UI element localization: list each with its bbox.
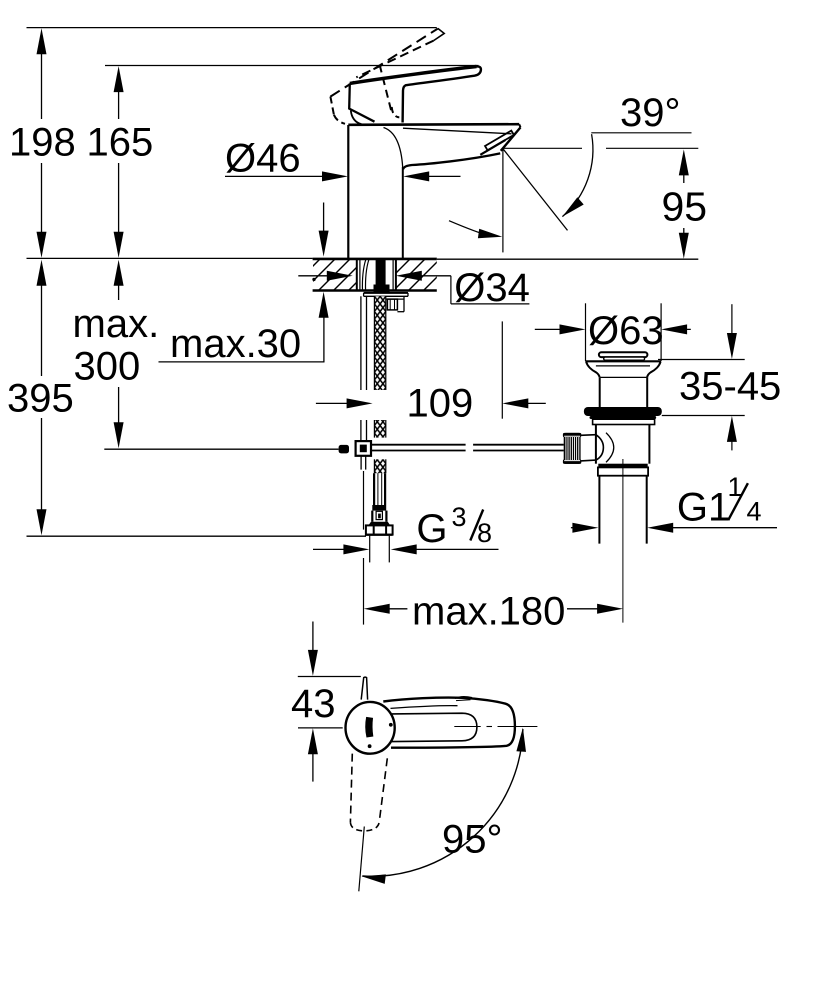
drain flange top line [585,360,661,362]
G3/8 dimension line [313,548,357,550]
165 reference line (spout height) [105,65,479,67]
G3/8 nut [368,522,390,526]
43 upper reference line [298,676,361,678]
counter line thick top [313,258,437,261]
hose ferrule [372,505,386,511]
svg-text:95°: 95° [442,818,503,862]
counter line left [27,257,313,259]
dimension Ø34 arrows [298,275,340,277]
pop-up pull rod lower [360,420,362,441]
svg-text:39°: 39° [620,91,681,135]
95-degree arc [362,729,523,876]
dimension 198 vertical line [41,34,43,119]
plan lever inner outline [392,713,477,741]
spout tip face [501,127,521,150]
spout tip corner [519,124,520,127]
spout vertical reference upper [502,149,504,252]
39-degree horizontal reference A [503,147,582,149]
spout angle line [503,149,567,230]
svg-text:198: 198 [9,121,76,165]
svg-text:4: 4 [747,497,762,527]
35-45 upper arrow [731,304,733,347]
shank hose curves [362,260,365,292]
svg-text:43: 43 [291,682,336,726]
svg-text:Ø34: Ø34 [454,266,530,310]
spout upper inner line [403,128,512,134]
svg-text:max.30: max.30 [170,322,301,366]
spout neck fillet curve [384,128,403,168]
aerator strip 1 [485,131,514,151]
pop-up pull rod upper [360,296,362,390]
handle heel [349,83,374,121]
drain body inner arc [606,433,614,463]
threaded rod in shank [376,260,386,293]
drain knurled knob [563,433,581,437]
svg-text:109: 109 [407,382,474,426]
dimension 165 vertical line [118,72,120,119]
shank left wall [356,259,358,291]
dimension G1 1/4 [571,527,586,529]
plan handle ball [346,702,395,754]
43 lower arrow [308,728,318,754]
svg-text:G1: G1 [677,486,730,530]
max.180 left extension line [363,471,365,530]
39-degree horizontal reference B [591,132,691,134]
plan dots [389,723,393,727]
G3/8 extension lines [369,536,371,563]
svg-text:95: 95 [662,184,708,230]
mounting bracket [377,298,404,300]
max.30 upper arrow [323,203,325,245]
svg-text:Ø46: Ø46 [225,137,301,181]
plan top tab [455,697,472,699]
39-degree arc [562,134,593,216]
svg-text:Ø63: Ø63 [588,309,664,353]
hose smooth section [373,473,375,505]
mounting plate [364,292,408,294]
horizontal pop-up rod [371,444,466,446]
dimension 95 vertical [679,149,689,175]
35-45 lower reference line [662,415,745,417]
drain cap [599,352,648,357]
rod joint block [356,441,371,456]
drain tailpipe [598,476,600,544]
handle lever (solid) [350,67,477,84]
svg-text:165: 165 [87,121,154,165]
drain flange band [593,419,655,424]
drain body walls [595,425,597,464]
drain lever boss [581,434,596,437]
shank right wall [392,259,394,291]
top reference line (handle max height) [27,27,437,29]
Ø63 extension lines [585,303,587,361]
drain flange trumpet [586,362,599,377]
svg-text:max.180: max.180 [412,590,565,634]
43 upper arrow [312,622,314,664]
dimension max.180 [364,604,390,614]
35-45 upper reference line [658,359,745,361]
35-45 lower arrow [727,416,737,442]
plan lever tip tab [361,677,367,700]
svg-text:395: 395 [7,377,74,421]
rod tail below joint [360,456,362,470]
drain collar [598,464,647,468]
braided supply hose lower [374,459,385,473]
max.30 lower arrow and leader [319,292,329,318]
dimension 109 [316,402,361,404]
dimension 395 vertical line [41,267,43,376]
hose connector [371,511,373,522]
svg-text:G: G [416,507,447,551]
faucet body right edge [402,167,404,258]
aerator strip 2 [480,140,505,155]
395 bottom reference line [27,535,367,537]
Ø34 label frame [450,276,452,304]
plan open handle centerline [359,827,365,892]
svg-text:35-45: 35-45 [679,365,781,409]
plan open handle (dashed) [350,754,352,823]
plan centerline dash-dot [454,726,480,728]
faucet body top thick line [348,123,519,126]
counter underside thick line [313,289,437,291]
drain O-ring [584,407,662,416]
counter line right [437,258,699,260]
dimension Ø63 [535,328,573,330]
svg-text:max.: max. [73,302,160,346]
109 right extension line [501,321,503,418]
max.300 bottom reference line [104,448,338,450]
plan inner top line [391,706,458,709]
spout swivel arc [449,221,490,236]
dimension max.300 vertical line [118,267,120,300]
drain upper cylinder [599,377,601,407]
plan lever slot [366,717,373,737]
svg-text:3: 3 [452,502,467,532]
plan body outline [383,698,515,748]
braided supply hose middle [374,420,385,438]
rod end stub [339,445,349,454]
faucet body left edge [347,125,349,258]
drain centerline [622,459,624,623]
spout underside [403,153,500,169]
handle raised position (dashed) [330,29,437,97]
svg-text:300: 300 [74,345,141,389]
95 top reference line [606,147,698,149]
svg-text:8: 8 [477,518,492,548]
counter hatching [288,259,485,291]
braided supply hose upper [374,296,385,390]
43 lower reference line [298,727,343,729]
